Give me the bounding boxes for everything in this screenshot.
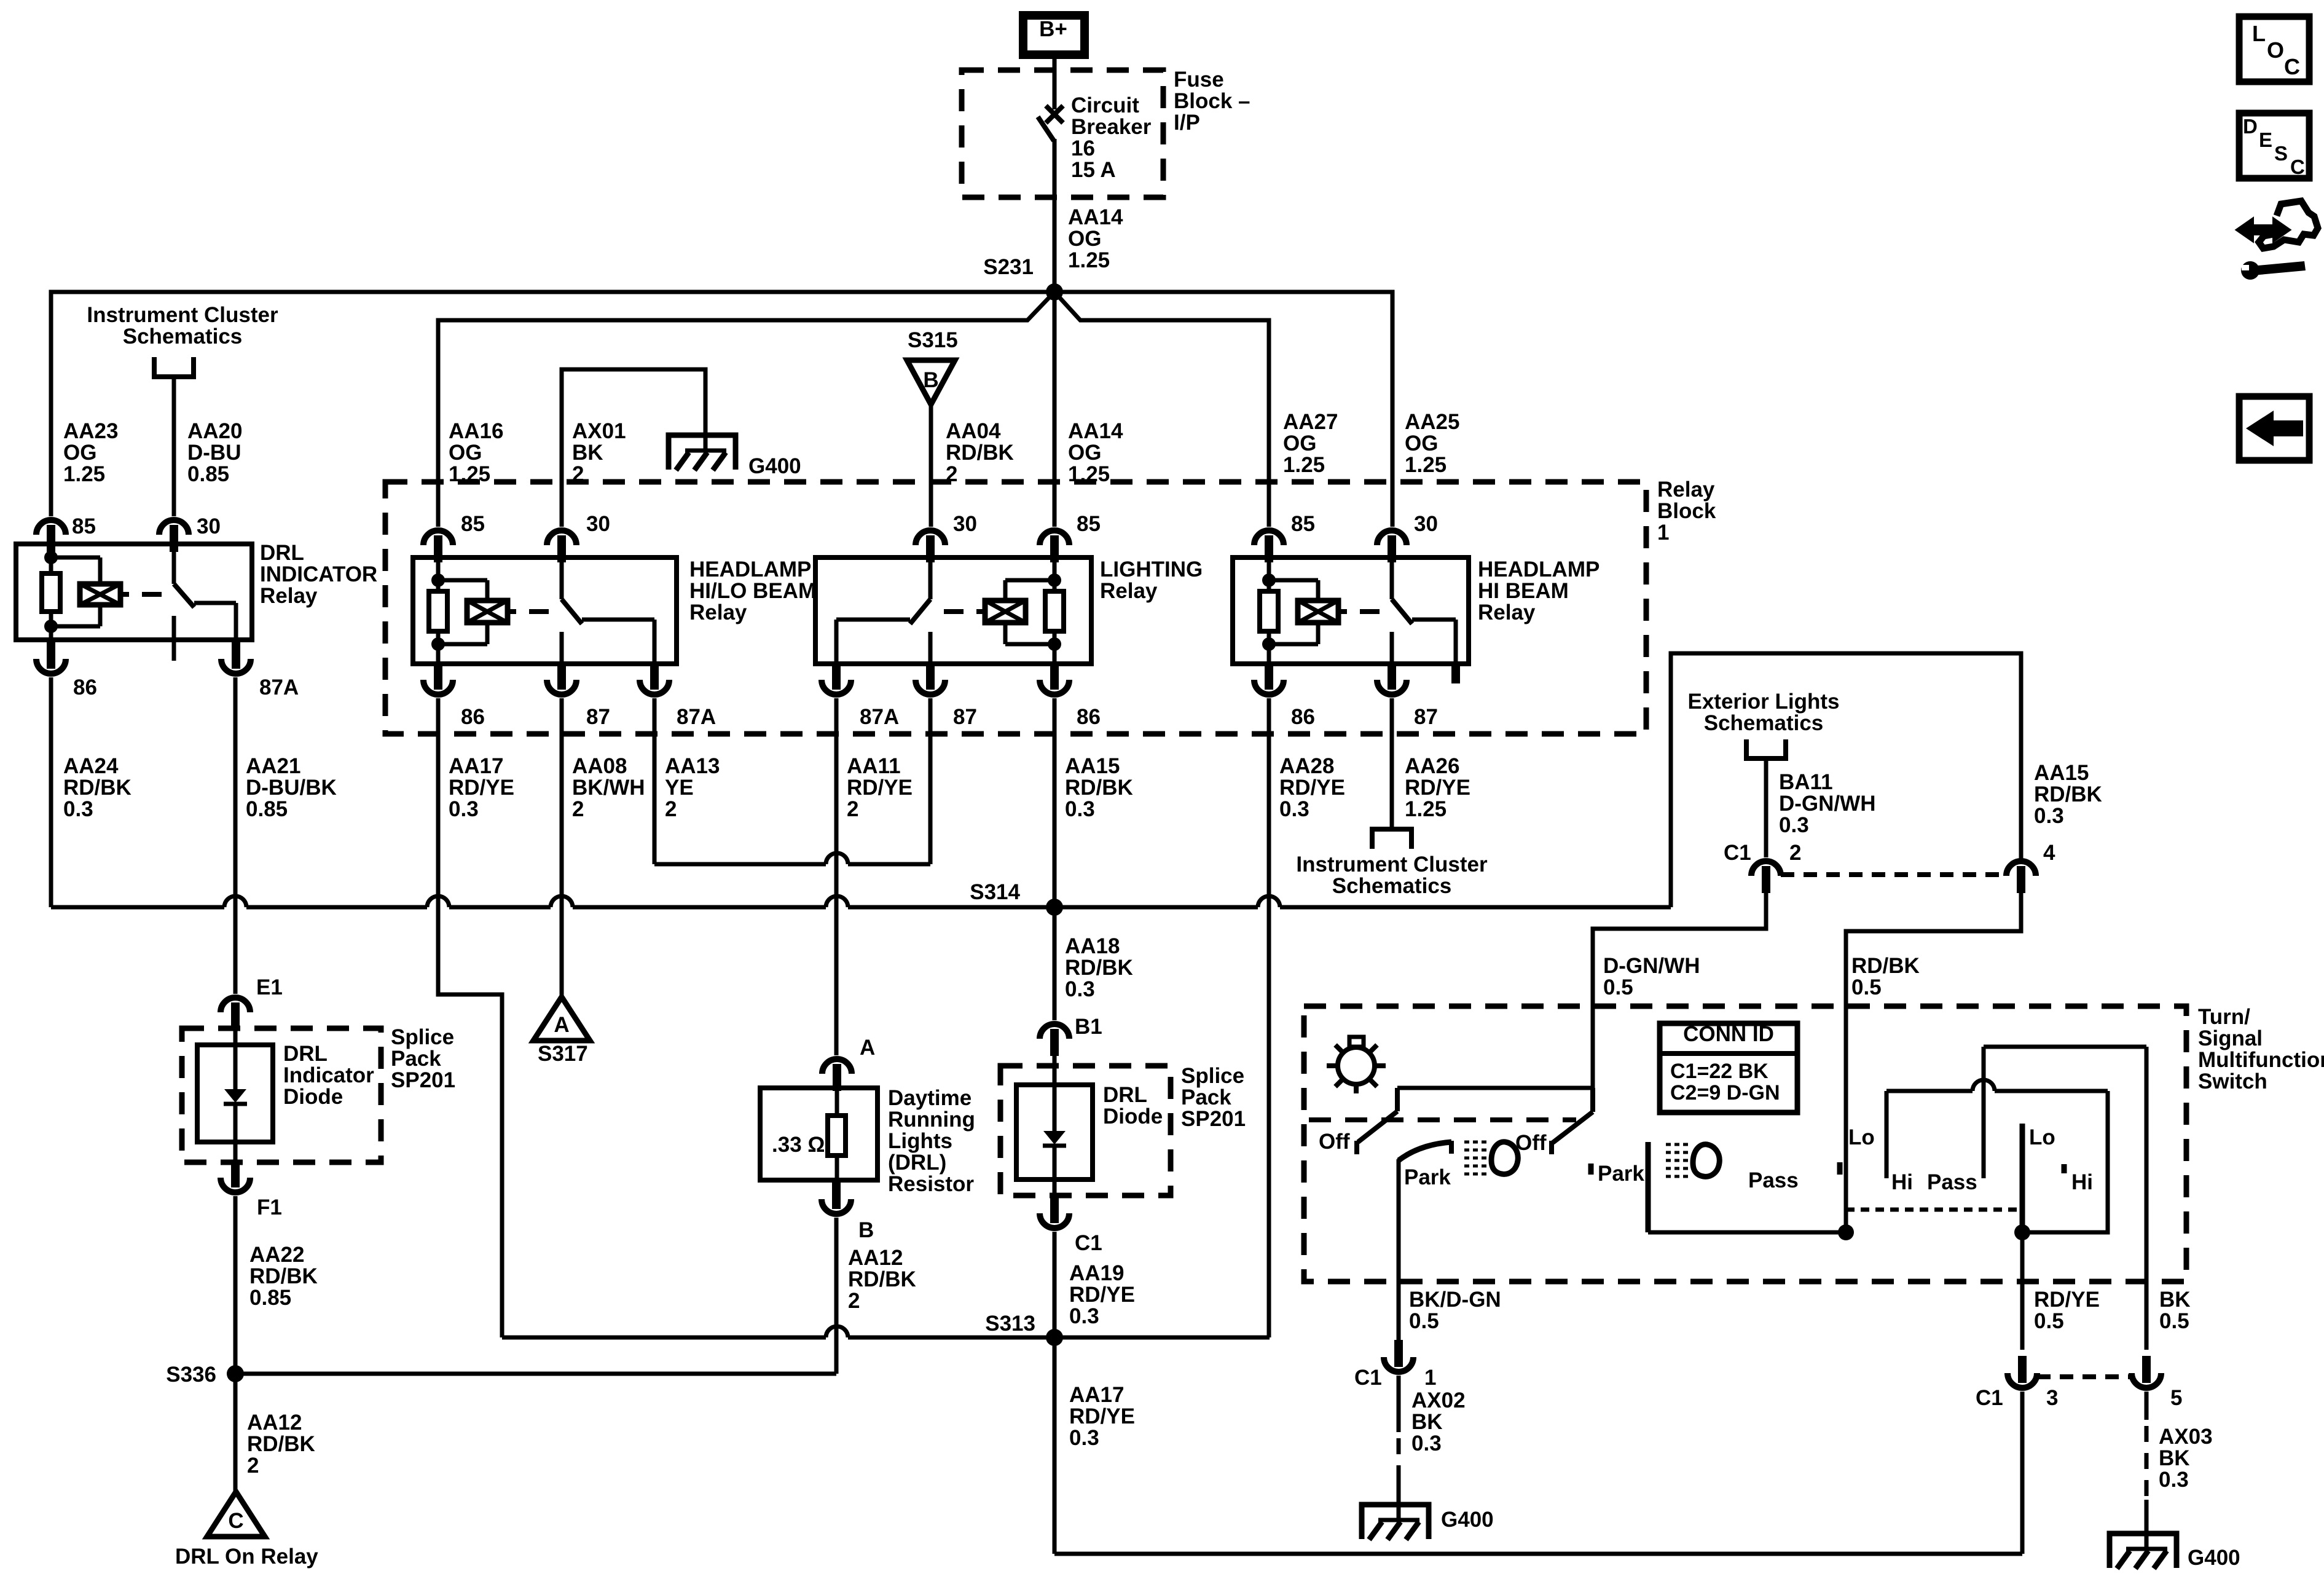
wire AX02 to ground [1397, 1376, 1401, 1520]
svg-text:B: B [923, 368, 938, 392]
top bus wire from S231 to left column [51, 292, 1054, 516]
label Pass (pole 2) [1748, 1168, 1799, 1192]
svg-text:30: 30 [953, 512, 977, 536]
connector pin 86 hi beam relay [1254, 663, 1284, 695]
svg-text:A: A [860, 1036, 875, 1060]
svg-text:DRL: DRL [283, 1042, 328, 1066]
bottom bus wire S313 to C1-3 [1054, 1552, 2022, 1556]
svg-text:LIGHTING: LIGHTING [1100, 557, 1203, 581]
svg-text:0.3: 0.3 [2159, 1468, 2189, 1492]
connector F1 [221, 1160, 250, 1192]
circuit breaker CB16 symbol [1038, 106, 1063, 141]
svg-text:86: 86 [461, 705, 485, 729]
svg-text:AA22: AA22 [249, 1243, 304, 1267]
svg-text:C2=9 D-GN: C2=9 D-GN [1670, 1081, 1780, 1105]
connector pin 86 DRL relay [36, 642, 66, 674]
svg-text:Hi: Hi [2071, 1170, 2093, 1194]
wire D-GN/WH 0.5 to switch [1593, 881, 1766, 1088]
wire AA18 S314 to B1 [1053, 907, 1057, 1020]
svg-text:S317: S317 [538, 1042, 588, 1066]
svg-text:BK: BK [1411, 1410, 1443, 1434]
label S336 [166, 1363, 216, 1387]
top bus wire from S231 to AA25 column [1054, 292, 1392, 527]
svg-text:Splice: Splice [1181, 1064, 1244, 1088]
icon DESC box [2239, 113, 2309, 178]
wire AA11 to resistor connector A [834, 698, 839, 1055]
svg-text:0.5: 0.5 [1851, 975, 1882, 999]
wire AA15 86-pin to S314 [1053, 698, 1057, 907]
svg-text:(DRL): (DRL) [888, 1151, 946, 1175]
label wire AA08 BK/WH 2 [572, 754, 645, 821]
svg-text:Pack: Pack [391, 1047, 441, 1071]
contact Pass pole 1 dimmer [1982, 1047, 1986, 1178]
svg-text:SP201: SP201 [1181, 1107, 1246, 1131]
svg-text:BK: BK [2159, 1288, 2191, 1312]
svg-text:2: 2 [848, 1289, 860, 1313]
label wire BK 0.5 (dimmer) [2159, 1288, 2191, 1333]
connector pin 85 lighting relay [1040, 530, 1069, 562]
svg-text:HEADLAMP: HEADLAMP [1478, 557, 1600, 581]
svg-text:BK: BK [572, 441, 603, 465]
label DRL diode [1103, 1083, 1163, 1128]
svg-text:0.5: 0.5 [2159, 1309, 2189, 1333]
pin 30 label hi beam relay [1414, 512, 1438, 536]
svg-text:RD/YE: RD/YE [1405, 776, 1470, 800]
svg-text:0.3: 0.3 [63, 797, 93, 821]
svg-text:15 A: 15 A [1071, 158, 1116, 182]
label connector C1 diode [1075, 1231, 1102, 1255]
svg-text:OG: OG [1405, 431, 1438, 455]
pin 86 label lighting relay [1077, 705, 1101, 729]
label wire RD/BK 0.5 [1851, 954, 1920, 999]
svg-text:S231: S231 [983, 255, 1034, 279]
label Park (pole 1) [1404, 1165, 1451, 1189]
svg-text:0.3: 0.3 [1411, 1431, 1442, 1455]
svg-text:Running: Running [888, 1108, 975, 1132]
connector C1 diode [1040, 1196, 1069, 1228]
label wire AA27 OG 1.25 [1283, 410, 1338, 477]
svg-text:BA11: BA11 [1779, 770, 1833, 794]
svg-text:D-GN/WH: D-GN/WH [1779, 792, 1875, 816]
detent symbol pole 2 [1666, 1144, 1719, 1177]
svg-text:AA26: AA26 [1405, 754, 1459, 778]
label S313 [985, 1312, 1035, 1336]
svg-text:Schematics: Schematics [1704, 711, 1824, 735]
connector pin 85 DRL relay [36, 520, 66, 552]
label .33 ohm [772, 1133, 825, 1157]
wire AA26 to instrument cluster ref [1390, 698, 1394, 829]
label wire AA17 RD/YE 0.3 (lower) [1069, 1383, 1135, 1450]
wire BA11 from exterior lights ref [1764, 761, 1769, 857]
label splice pack SP201 (center) [1181, 1064, 1246, 1131]
off-page connector triangle C (DRL On Relay) [207, 1492, 265, 1537]
node S231 [1046, 283, 1063, 301]
connector pin 30 lighting relay [916, 530, 945, 562]
svg-text:AA15: AA15 [2034, 761, 2089, 785]
svg-text:0.3: 0.3 [1069, 1304, 1099, 1328]
label wire AA24 RD/BK 0.3 [63, 754, 132, 821]
connector pin 30 hi beam relay [1377, 530, 1407, 562]
label pin 4 [2043, 841, 2055, 865]
svg-text:RD/BK: RD/BK [249, 1264, 318, 1288]
pin 86 label DRL relay [73, 675, 97, 699]
wire pole 2 output to node [1648, 1231, 1846, 1235]
svg-text:AX01: AX01 [572, 419, 626, 443]
connector dashed line C1 bottom [2037, 1374, 2132, 1379]
svg-text:Off: Off [1319, 1130, 1350, 1154]
svg-text:Relay: Relay [1478, 600, 1536, 624]
label E1 [256, 975, 283, 999]
svg-text:1: 1 [1657, 521, 1669, 545]
svg-text:RD/YE: RD/YE [1279, 776, 1345, 800]
svg-text:C: C [2284, 54, 2300, 79]
svg-text:0.3: 0.3 [2034, 804, 2064, 828]
svg-text:RD/BK: RD/BK [1065, 776, 1133, 800]
svg-text:AX03: AX03 [2159, 1425, 2213, 1449]
label wire AA18 RD/BK 0.3 [1065, 934, 1133, 1001]
wire AA17 S313 to bottom bus [1053, 1337, 1057, 1554]
label DRL resistor [888, 1086, 975, 1196]
wire BK to C1 pin 5 [2145, 1047, 2149, 1350]
connector pin 87 lighting relay [916, 663, 945, 695]
svg-text:AA25: AA25 [1405, 410, 1459, 434]
svg-text:DRL On Relay: DRL On Relay [175, 1545, 318, 1569]
label wire AA15 RD/BK 0.3 (right) [2034, 761, 2102, 828]
svg-text:Daytime: Daytime [888, 1086, 972, 1110]
svg-text:C1: C1 [1075, 1231, 1102, 1255]
label G400 (AX03) [2188, 1546, 2240, 1570]
connector pin 86 hi/lo relay [423, 663, 453, 695]
wire AA14 breaker to S231 [1053, 139, 1057, 292]
turn signal multifunction switch dashed box [1304, 1006, 2186, 1282]
label Park (pole 2) [1598, 1162, 1644, 1186]
svg-text:AA14: AA14 [1068, 205, 1123, 229]
svg-text:Schematics: Schematics [123, 325, 243, 348]
svg-text:Turn/: Turn/ [2198, 1005, 2250, 1029]
bus wire S336 horizontal [235, 1372, 836, 1376]
label wire AA17 RD/YE 0.3 [449, 754, 514, 821]
svg-text:C: C [228, 1509, 243, 1533]
pin 87 label lighting relay [953, 705, 977, 729]
svg-text:0.3: 0.3 [1279, 797, 1309, 821]
label wire D-GN/WH 0.5 [1603, 954, 1700, 999]
svg-text:AX02: AX02 [1411, 1388, 1466, 1412]
label G400 (AX02) [1441, 1508, 1494, 1532]
label wire AA12 RD/BK 2 (resistor) [848, 1246, 916, 1313]
svg-text:Diode: Diode [283, 1085, 343, 1109]
svg-text:16: 16 [1071, 136, 1095, 160]
svg-text:B+: B+ [1039, 17, 1067, 41]
svg-text:RD/BK: RD/BK [946, 441, 1014, 465]
svg-text:OG: OG [63, 441, 96, 465]
svg-text:OG: OG [449, 441, 482, 465]
label wire AA15 RD/BK 0.3 [1065, 754, 1133, 821]
svg-text:30: 30 [1414, 512, 1438, 536]
svg-text:1.25: 1.25 [1283, 453, 1325, 477]
label pin 5 [2170, 1386, 2182, 1410]
connector pin 30 DRL relay [159, 520, 189, 552]
pin 30 label DRL relay [197, 514, 221, 538]
svg-text:5: 5 [2170, 1386, 2182, 1410]
svg-text:87A: 87A [259, 675, 299, 699]
connector pin 87A lighting relay [822, 663, 851, 695]
svg-text:B: B [858, 1218, 874, 1242]
splice pack SP201 dashed box (center) [1000, 1066, 1171, 1195]
connector pin 87 hi beam relay [1377, 663, 1407, 695]
label wire AX01 BK 2 [572, 419, 626, 486]
label wire AA25 OG 1.25 [1405, 410, 1459, 477]
svg-text:C: C [2290, 156, 2305, 178]
label pin 1 [1424, 1366, 1436, 1390]
relay K3 HEADLAMP HI BEAM [1233, 557, 1600, 683]
ground G400 (AX02) [1362, 1505, 1429, 1540]
label wire AA23 OG 1.25 [63, 419, 118, 486]
node switch output RD/BK [1838, 1224, 1854, 1240]
wire lighting 87 stub [928, 698, 933, 864]
pin 85 label lighting relay [1077, 512, 1101, 536]
svg-text:0.5: 0.5 [1409, 1309, 1439, 1333]
svg-text:0.3: 0.3 [1065, 977, 1095, 1001]
svg-text:DRL: DRL [260, 541, 304, 565]
svg-text:Hi: Hi [1891, 1170, 1913, 1194]
svg-text:Pass: Pass [1748, 1168, 1799, 1192]
svg-text:HI BEAM: HI BEAM [1478, 579, 1569, 603]
svg-text:0.3: 0.3 [449, 797, 479, 821]
svg-text:D-BU: D-BU [187, 441, 241, 465]
svg-text:YE: YE [665, 776, 694, 800]
svg-text:S336: S336 [166, 1363, 216, 1387]
lamp symbol parking lamps [1327, 1037, 1386, 1093]
svg-text:OG: OG [1283, 431, 1316, 455]
wire AA19 C1 to S313 [1053, 1232, 1057, 1337]
contact Park bar pole 2 [1646, 1142, 1651, 1232]
svg-text:RD/BK: RD/BK [2034, 782, 2102, 806]
connector B resistor [822, 1182, 851, 1214]
svg-text:87A: 87A [860, 705, 899, 729]
pin 87A label lighting relay [860, 705, 899, 729]
connector pin 87A hi/lo relay [640, 663, 669, 695]
wire AA14 S231 to lighting relay 85 [1053, 292, 1057, 527]
label C1 (pin 1) [1354, 1366, 1382, 1390]
contact tick Pass pole 2 [1837, 1162, 1843, 1175]
svg-text:E: E [2259, 128, 2272, 151]
svg-text:Relay: Relay [260, 584, 318, 608]
svg-text:85: 85 [72, 514, 96, 538]
svg-text:Switch: Switch [2198, 1069, 2267, 1093]
diode D2 DRL diode [1016, 1050, 1093, 1200]
exterior lights schematics reference [1688, 690, 1840, 758]
label Hi (dimmer pole 1) [1891, 1170, 1913, 1194]
label wire AX03 BK 0.3 [2159, 1425, 2213, 1492]
svg-text:L: L [2252, 21, 2266, 46]
svg-text:Signal: Signal [2198, 1026, 2263, 1050]
wire AA12 resistor to S336 bus [834, 1218, 839, 1374]
svg-text:INDICATOR: INDICATOR [260, 562, 377, 586]
contact Park arc pole 1 [1399, 1141, 1451, 1160]
svg-text:2: 2 [665, 797, 677, 821]
svg-text:OG: OG [1068, 227, 1101, 251]
fuse block label [1174, 68, 1250, 135]
pin 30 label hi/lo relay [586, 512, 610, 536]
svg-text:C1: C1 [1724, 841, 1751, 865]
svg-text:86: 86 [1077, 705, 1101, 729]
icon LOC box [2239, 17, 2309, 82]
connector E1 [221, 998, 250, 1030]
diode D1 DRL indicator diode [197, 1023, 273, 1165]
pin 87A label DRL relay [259, 675, 299, 699]
connector pin 86 lighting relay [1040, 663, 1069, 695]
contact Lo bar pole 2 dimmer [2020, 1124, 2025, 1232]
wire AA22 F1 to S336 [234, 1196, 238, 1374]
svg-text:30: 30 [197, 514, 221, 538]
svg-text:RD/BK: RD/BK [63, 776, 132, 800]
svg-text:1.25: 1.25 [1405, 453, 1447, 477]
svg-text:0.3: 0.3 [1065, 797, 1095, 821]
svg-text:RD/YE: RD/YE [2034, 1288, 2100, 1312]
wire branch S231 to AA16 [438, 292, 1054, 527]
node dimmer output [2014, 1224, 2030, 1240]
svg-text:Off: Off [1515, 1131, 1547, 1155]
label wire AA26 RD/YE 1.25 [1405, 754, 1470, 821]
wire B+ to circuit breaker [1053, 59, 1057, 109]
node S336 [227, 1365, 244, 1382]
svg-text:2: 2 [572, 797, 584, 821]
connector C1 pin 2 [1751, 861, 1781, 893]
pin 85 label DRL relay [72, 514, 96, 538]
svg-text:AA12: AA12 [848, 1246, 903, 1270]
svg-text:S314: S314 [970, 880, 1020, 904]
mechanical link dashes dimmer [1846, 1208, 2022, 1212]
label wire BA11 D-GN/WH 0.3 [1779, 770, 1875, 837]
svg-text:RD/YE: RD/YE [1069, 1283, 1135, 1307]
label splice pack SP201 (left) [391, 1025, 455, 1092]
label wire AA14 OG 1.25 (top) [1068, 205, 1123, 272]
wire AA21 to E1 [234, 677, 238, 994]
svg-text:86: 86 [73, 675, 97, 699]
wire AA12 S336 to triangle C [234, 1374, 238, 1492]
svg-text:0.3: 0.3 [1069, 1426, 1099, 1450]
mechanical link dashes headlamp switch [1309, 1117, 1576, 1122]
svg-text:Instrument Cluster: Instrument Cluster [87, 303, 278, 327]
label wire AA13 YE 2 [665, 754, 720, 821]
label connector B [858, 1218, 874, 1242]
wire loop to connector 4 [1671, 653, 2021, 907]
label G400 (AX01) [748, 454, 801, 478]
svg-text:Instrument Cluster: Instrument Cluster [1296, 853, 1488, 876]
svg-text:Multifunction: Multifunction [2198, 1048, 2324, 1072]
label pin 3 [2046, 1386, 2058, 1410]
label C1 (conn 2) [1724, 841, 1751, 865]
svg-text:G400: G400 [1441, 1508, 1494, 1532]
label DRL indicator diode [283, 1042, 374, 1109]
connector B1 [1040, 1024, 1069, 1056]
svg-text:G400: G400 [748, 454, 801, 478]
pin 87A label hi/lo relay [677, 705, 716, 729]
pin 87 label hi beam relay [1414, 705, 1438, 729]
label Lo (dimmer pole 2) [2029, 1125, 2055, 1149]
off-page connector triangle B (S315) [907, 360, 955, 404]
wire BK/D-GN from park contact [1397, 1159, 1401, 1350]
svg-text:30: 30 [586, 512, 610, 536]
svg-text:AA17: AA17 [1069, 1383, 1124, 1407]
connector C1 pin 3 [2008, 1356, 2037, 1388]
svg-text:BK: BK [2159, 1446, 2190, 1470]
svg-text:AA15: AA15 [1065, 754, 1120, 778]
connector C1 pin 1 [1384, 1340, 1413, 1372]
ground G400 (AX01) [669, 435, 736, 470]
svg-text:HI/LO BEAM: HI/LO BEAM [689, 579, 816, 603]
bus wire S314 horizontal [51, 896, 1671, 907]
label wire AX02 BK 0.3 [1411, 1388, 1466, 1455]
relay U1 DRL INDICATOR [16, 541, 377, 661]
svg-text:AA18: AA18 [1065, 934, 1120, 958]
svg-text:0.5: 0.5 [1603, 975, 1633, 999]
label Lo (dimmer pole 1) [1848, 1125, 1875, 1149]
connector C1 pin 5 [2132, 1356, 2161, 1388]
svg-text:RD/BK: RD/BK [848, 1267, 916, 1291]
svg-text:Relay: Relay [1100, 579, 1158, 603]
svg-text:Block –: Block – [1174, 89, 1250, 113]
svg-text:AA11: AA11 [847, 754, 901, 778]
label pin 2 [1789, 841, 1801, 865]
svg-text:Lo: Lo [2029, 1125, 2055, 1149]
svg-text:RD/YE: RD/YE [1069, 1404, 1135, 1428]
svg-text:RD/YE: RD/YE [449, 776, 514, 800]
wire AA24 to bus [49, 677, 53, 907]
connector pin 87 hi/lo relay [547, 663, 576, 695]
label wire AA22 RD/BK 0.85 [249, 1243, 318, 1310]
svg-text:BK/D-GN: BK/D-GN [1409, 1288, 1501, 1312]
svg-text:0.5: 0.5 [2034, 1309, 2064, 1333]
icon back arrow box [2239, 396, 2309, 460]
pin 85 label hi beam relay [1291, 512, 1315, 536]
svg-text:87: 87 [1414, 705, 1438, 729]
label S231 [983, 255, 1034, 279]
wire RD/YE dimmer output down [2020, 1232, 2025, 1350]
contact tick Hi pole 2 dimmer [2062, 1164, 2067, 1173]
svg-text:C1: C1 [1976, 1386, 2003, 1410]
label wire AA14 OG 1.25 (mid) [1068, 419, 1123, 486]
label S317 [538, 1042, 588, 1066]
connector A resistor [822, 1059, 852, 1091]
label Off (pole 1) [1319, 1130, 1350, 1154]
wire AA04 from triangle B [929, 404, 933, 527]
label wire AA12 RD/BK 2 (lower) [247, 1411, 315, 1478]
svg-text:1.25: 1.25 [1405, 797, 1447, 821]
svg-text:RD/BK: RD/BK [1851, 954, 1920, 978]
svg-text:Exterior Lights: Exterior Lights [1688, 690, 1840, 714]
node S313 [1046, 1329, 1063, 1346]
svg-text:C1=22 BK: C1=22 BK [1670, 1060, 1769, 1083]
connector pin 87A DRL relay [221, 642, 251, 674]
connector pin 30 hi/lo relay [547, 530, 576, 562]
svg-text:D-BU/BK: D-BU/BK [246, 776, 337, 800]
svg-text:F1: F1 [257, 1195, 282, 1219]
icon jump-to wrench [2237, 201, 2318, 280]
wire AA28 to S313 [1267, 698, 1271, 1337]
svg-text:AA14: AA14 [1068, 419, 1123, 443]
svg-text:Lights: Lights [888, 1129, 952, 1153]
svg-text:87: 87 [586, 705, 610, 729]
svg-text:Block: Block [1657, 499, 1716, 523]
bus wire S313 horizontal [502, 1326, 1270, 1337]
connector pin 85 hi beam relay [1254, 530, 1284, 562]
svg-text:AA23: AA23 [63, 419, 118, 443]
fuse block dashed box [962, 70, 1163, 197]
svg-text:Breaker: Breaker [1071, 115, 1152, 139]
svg-text:AA16: AA16 [449, 419, 503, 443]
svg-text:2: 2 [247, 1454, 259, 1478]
